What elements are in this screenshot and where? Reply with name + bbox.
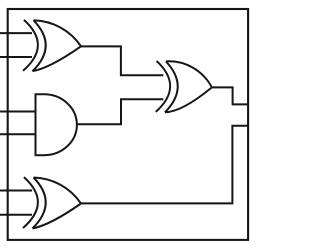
xor gate U1 (top left) (23, 20, 81, 71)
wire input D (AND U2 input 2) (0, 133, 36, 135)
and gate U2 (middle left) (35, 94, 77, 155)
wire input E (bottom XOR U3 input 1) (0, 190, 32, 192)
wire U3 output to right border port (81, 126, 248, 204)
wire U1 output to U4 input 1 (81, 46, 164, 75)
wire input A (top XOR U1 input 1) (0, 32, 32, 34)
wire input C (AND U2 input 1) (0, 111, 36, 113)
wire U2 output to U4 input 2 (76, 99, 163, 124)
border box (8, 9, 248, 240)
wire input B (top XOR U1 input 2) (0, 56, 32, 58)
xor gate U4 (middle right) (156, 61, 212, 112)
xor gate U3 (bottom left) (23, 177, 81, 228)
wire U4 output to right border port (212, 87, 248, 104)
wire input F (bottom XOR U3 input 2) (0, 214, 32, 216)
